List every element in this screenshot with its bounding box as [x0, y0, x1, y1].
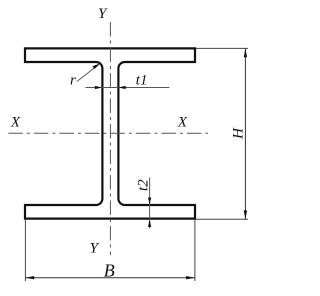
B dimension extension line right	[194, 220, 196, 281]
t2 arrow up-pointing	[148, 219, 151, 227]
H dimension line	[244, 48, 246, 219]
B arrow right	[186, 276, 195, 279]
H arrow down	[244, 210, 247, 219]
H dimension extension line bottom	[196, 218, 248, 220]
H arrow up	[244, 49, 247, 58]
svg-text:Y: Y	[98, 6, 108, 22]
svg-text:r: r	[70, 73, 76, 89]
t1 arrow right-pointing	[95, 86, 103, 89]
r leader arrowhead	[92, 63, 100, 69]
B dimension extension line left	[24, 220, 26, 281]
svg-text:H: H	[231, 127, 247, 140]
B dimension line	[25, 277, 195, 279]
svg-text:B: B	[104, 261, 115, 281]
t1 arrow left-pointing	[118, 86, 126, 89]
svg-text:Y: Y	[90, 240, 100, 256]
I-beam outline	[25, 48, 195, 218]
svg-text:X: X	[177, 115, 188, 131]
horizontal centerline X-X	[8, 132, 208, 134]
vertical centerline Y-Y	[109, 22, 111, 255]
t2 arrow down-pointing	[148, 198, 151, 206]
svg-text:t2: t2	[136, 179, 152, 191]
r leader line	[77, 65, 98, 82]
svg-text:t1: t1	[136, 73, 148, 89]
svg-text:X: X	[10, 115, 21, 131]
t2 dimension line	[149, 178, 151, 229]
t1 dimension line	[86, 87, 170, 89]
B arrow left	[26, 276, 35, 279]
H dimension extension line top	[196, 47, 248, 49]
